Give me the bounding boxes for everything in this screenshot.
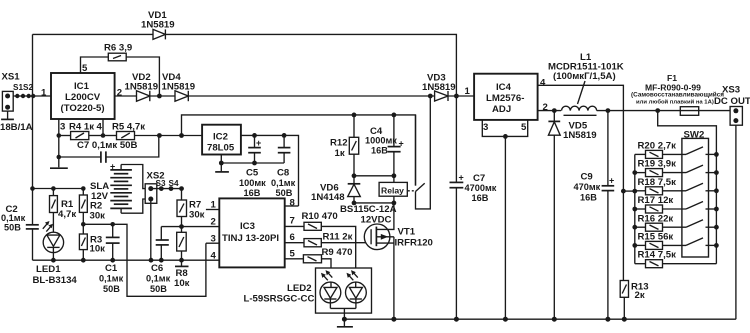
diode VD3 <box>422 73 474 102</box>
resistor R12 <box>330 113 359 176</box>
svg-text:2: 2 <box>543 102 548 113</box>
svg-text:R11 2к: R11 2к <box>323 231 353 242</box>
svg-text:470мк: 470мк <box>574 182 601 192</box>
wire: R1/R2 supply y=188.5 <box>33 186 86 195</box>
op-amp IC1 L200CV <box>51 73 115 119</box>
connector XS3 DC OUT <box>714 85 750 320</box>
LED2 left element <box>320 282 341 303</box>
svg-text:4: 4 <box>97 122 103 133</box>
svg-text:Relay: Relay <box>381 185 404 195</box>
wire: IC2 ground pin <box>219 155 224 172</box>
relay K1 coil <box>379 176 407 203</box>
svg-text:XS3: XS3 <box>722 85 740 96</box>
LED2 cathode bus <box>330 308 356 319</box>
wire: battery minus to XS2 pin2 <box>121 199 151 213</box>
svg-text:1N4148: 1N4148 <box>311 192 345 203</box>
capacitor C9 <box>574 111 615 320</box>
switch SW2 box <box>682 130 709 258</box>
wire: drain node y=202.9 <box>352 201 397 206</box>
svg-text:5: 5 <box>521 122 527 133</box>
svg-text:ADJ: ADJ <box>492 104 511 115</box>
node S2 <box>27 94 36 98</box>
svg-text:1000мк: 1000мк <box>365 136 397 146</box>
svg-text:IC3: IC3 <box>240 221 255 232</box>
MCU IC3 TINJ13-20PI <box>219 198 284 267</box>
pin 8 IC3 <box>285 198 299 209</box>
pin 7 IC3 + resistor R10 <box>285 211 356 282</box>
resistor R17 + switch SW2.4 <box>635 195 719 213</box>
svg-text:IC2: IC2 <box>213 132 228 143</box>
svg-text:DC OUT: DC OUT <box>714 96 750 107</box>
resistor R2 <box>79 195 105 234</box>
svg-text:16В: 16В <box>371 146 388 156</box>
svg-text:или любой плавкий на 1А): или любой плавкий на 1А) <box>636 98 714 105</box>
SECTION-MID <box>202 94 433 327</box>
svg-text:50В: 50В <box>150 284 167 294</box>
capacitor C7 (4700uF) <box>450 96 497 319</box>
relay contact (dashed link + switch) <box>408 94 433 209</box>
svg-text:R6 3,9: R6 3,9 <box>104 43 132 54</box>
svg-text:30к: 30к <box>90 211 106 222</box>
svg-text:0,1мк: 0,1мк <box>99 274 124 284</box>
ground (XS1) <box>1 111 14 119</box>
pin 4 IC4 + feedback wire <box>538 78 624 281</box>
pin 3 IC1 + wire <box>57 119 66 167</box>
node VD2/VD4/R6 junction <box>150 94 175 99</box>
svg-text:4: 4 <box>211 251 217 262</box>
svg-text:50В: 50В <box>103 284 120 294</box>
svg-text:TINJ 13-20PI: TINJ 13-20PI <box>222 233 279 244</box>
svg-text:XS1: XS1 <box>2 72 21 83</box>
svg-text:1N5819: 1N5819 <box>422 82 456 93</box>
diode VD1 <box>141 10 175 39</box>
svg-text:100мк: 100мк <box>239 178 266 188</box>
svg-text:50В: 50В <box>4 223 21 233</box>
svg-text:0,1мк: 0,1мк <box>271 178 296 188</box>
diode VD5 <box>548 111 596 320</box>
resistor R15 + switch SW2.6 <box>635 232 719 250</box>
svg-text:16В: 16В <box>472 193 489 203</box>
resistor R14 (direct) <box>635 250 717 268</box>
svg-text:10к: 10к <box>90 244 106 255</box>
LED2 right element <box>346 282 367 303</box>
pin 1 IC3 (stub) <box>206 200 219 211</box>
regulator IC2 78L05 <box>202 125 241 155</box>
pin 2 IC4 + output <box>538 102 561 113</box>
svg-text:4,7к: 4,7к <box>58 209 76 220</box>
wire: XS2 pin1 via S3/S4 to R7 top <box>151 186 184 191</box>
svg-text:BL-B3134: BL-B3134 <box>33 275 78 286</box>
connector XS2 <box>145 171 179 204</box>
pin 3 wire <box>206 242 219 244</box>
svg-text:LED2: LED2 <box>287 283 312 294</box>
svg-text:R12: R12 <box>330 138 348 149</box>
wire: R6 to VD2 cathode node <box>126 57 159 96</box>
svg-text:R9 470: R9 470 <box>322 247 353 258</box>
svg-text:8: 8 <box>290 198 296 209</box>
pin 4 IC1 + wire <box>97 119 106 138</box>
resistor R1 <box>50 189 77 235</box>
svg-text:2: 2 <box>211 217 216 228</box>
svg-text:6: 6 <box>290 232 295 243</box>
capacitor C1 <box>99 224 124 294</box>
capacitor C2 <box>1 204 39 260</box>
node R7/R8/C6/pin2 <box>179 224 184 229</box>
svg-text:S1S2: S1S2 <box>13 83 33 92</box>
svg-text:BS115C-12A: BS115C-12A <box>340 204 397 215</box>
capacitor C4 <box>365 113 404 176</box>
svg-text:(100мкГ/1,5А): (100мкГ/1,5А) <box>553 71 616 82</box>
node S1 <box>15 94 25 98</box>
svg-text:16В: 16В <box>244 188 261 198</box>
resistor R6 <box>104 43 132 61</box>
svg-text:0,1мк: 0,1мк <box>1 213 26 223</box>
svg-text:LED1: LED1 <box>36 264 61 275</box>
wire: relay coil top node <box>352 173 397 178</box>
SECTION-LEFT <box>0 10 456 296</box>
ground (IC1 pin3/C7) <box>50 167 68 169</box>
capacitor C6 <box>146 227 171 294</box>
wire: XS2 pin2 down to bottom wire <box>150 199 152 260</box>
svg-text:IC4: IC4 <box>496 82 512 93</box>
inductor L1 <box>548 52 680 115</box>
svg-text:1N5819: 1N5819 <box>125 82 159 93</box>
resistor R16 + switch SW2.5 <box>635 213 719 231</box>
wire: C5/C8 bottom wire <box>221 161 284 166</box>
ground (LED2 / main rail) <box>337 319 353 327</box>
svg-text:30к: 30к <box>189 210 205 221</box>
LED assembly LED2 <box>244 268 372 319</box>
wire: node to IC3 pin2 <box>161 226 219 228</box>
svg-text:L200CV: L200CV <box>65 92 101 103</box>
svg-text:C5: C5 <box>246 168 259 179</box>
svg-text:4: 4 <box>540 78 546 89</box>
svg-text:C1: C1 <box>105 263 118 274</box>
wire: output to SW2 common bus <box>658 111 717 264</box>
svg-text:1: 1 <box>465 86 471 97</box>
svg-text:1N5819: 1N5819 <box>141 20 175 31</box>
svg-text:78L05: 78L05 <box>207 143 235 154</box>
svg-text:C8: C8 <box>277 168 290 179</box>
pin 5 IC1 + wire <box>81 57 109 74</box>
svg-text:(TO220-5): (TO220-5) <box>61 103 105 114</box>
SECTION-RIGHT <box>342 52 750 322</box>
diode VD4 <box>162 72 196 101</box>
svg-text:5: 5 <box>82 63 88 74</box>
svg-text:2: 2 <box>117 88 122 99</box>
svg-text:2к: 2к <box>635 290 645 301</box>
svg-text:1N5819: 1N5819 <box>162 82 196 93</box>
svg-text:50В: 50В <box>276 188 293 198</box>
transistor VT1 IRFR120 <box>340 203 433 319</box>
pin 5 IC3 + resistor R9 <box>285 247 353 282</box>
svg-text:7: 7 <box>290 216 295 227</box>
svg-text:1к: 1к <box>335 148 345 159</box>
resistor R5 <box>103 122 202 140</box>
svg-text:IC1: IC1 <box>74 81 90 92</box>
svg-text:LM2576-: LM2576- <box>486 93 524 104</box>
ground (IC2) <box>215 171 229 173</box>
svg-text:+: + <box>459 173 464 183</box>
svg-text:1: 1 <box>41 88 47 99</box>
svg-text:IRFR120: IRFR120 <box>395 238 433 249</box>
svg-text:C9: C9 <box>581 172 593 183</box>
svg-text:4700мк: 4700мк <box>465 183 497 193</box>
svg-text:3: 3 <box>483 122 488 133</box>
resistor R3 <box>79 234 105 260</box>
wire: feedback bus (left) <box>621 154 637 263</box>
svg-text:3: 3 <box>60 122 65 133</box>
battery SLA 12V <box>90 162 132 214</box>
svg-text:C7 0,1мк 50В: C7 0,1мк 50В <box>77 140 138 151</box>
svg-text:10к: 10к <box>174 278 190 289</box>
svg-text:16В: 16В <box>580 193 597 203</box>
fuse F1 <box>631 73 730 115</box>
wire: main rail VD4 to VD3 <box>188 95 434 97</box>
regulator IC4 LM2576-ADJ <box>474 74 537 120</box>
wire: IC2 output rail y=135.4 <box>241 133 299 206</box>
resistor R13 <box>620 281 648 320</box>
resistor R8 <box>174 232 190 289</box>
capacitor C5 <box>239 135 266 197</box>
svg-text:L-59SRSGC-CC: L-59SRSGC-CC <box>244 294 315 305</box>
pin 6 IC3 + resistor R11 <box>285 231 371 247</box>
wire: bottom common of left section <box>33 258 220 263</box>
resistor R20 + switch SW2.1 <box>635 141 719 159</box>
wire: top bypass rail <box>33 34 457 96</box>
wire: battery plus to XS2 pin1 <box>121 165 151 189</box>
wire: vertical feed x=32.5 (top bypass / C2 branch) <box>30 34 35 224</box>
svg-text:(Самовосстанавливающийся: (Самовосстанавливающийся <box>631 91 724 99</box>
wire: main ground rail <box>342 317 736 322</box>
svg-text:+: + <box>609 176 614 186</box>
pins 3,5 IC4 ground <box>482 120 527 319</box>
capacitor C8 <box>271 135 296 197</box>
svg-text:C6: C6 <box>151 263 163 274</box>
diode VD6 <box>311 176 360 203</box>
ground (R8 node) <box>175 260 189 266</box>
svg-text:18В/1А: 18В/1А <box>0 122 33 133</box>
svg-text:1N5819: 1N5819 <box>563 130 597 141</box>
wire: input rail XS1 to IC1 <box>13 95 51 97</box>
resistor R18 + switch SW2.3 <box>635 177 719 195</box>
diode VD2 <box>125 72 159 101</box>
resistor R7 <box>177 189 205 233</box>
capacitor C7 (0.1uF) <box>59 136 159 163</box>
svg-text:+: + <box>256 138 261 148</box>
svg-text:R10 470: R10 470 <box>302 211 338 222</box>
LED LED1 <box>33 221 78 286</box>
wire: battery-sense node y=224.3 to IC3 pin3 route <box>81 222 206 296</box>
wire: IC1 pin2 to VD2 <box>115 95 137 97</box>
resistor R19 + switch SW2.2 <box>635 159 719 177</box>
resistor R4 <box>59 122 103 140</box>
connector XS1 <box>0 72 33 134</box>
svg-text:12V: 12V <box>91 191 109 202</box>
svg-text:VT1: VT1 <box>398 227 416 238</box>
svg-text:0,1мк: 0,1мк <box>146 274 171 284</box>
LED2 arrows <box>323 275 328 280</box>
svg-text:5: 5 <box>290 248 296 259</box>
wire: relay supply rail y=114.9 <box>182 115 416 186</box>
